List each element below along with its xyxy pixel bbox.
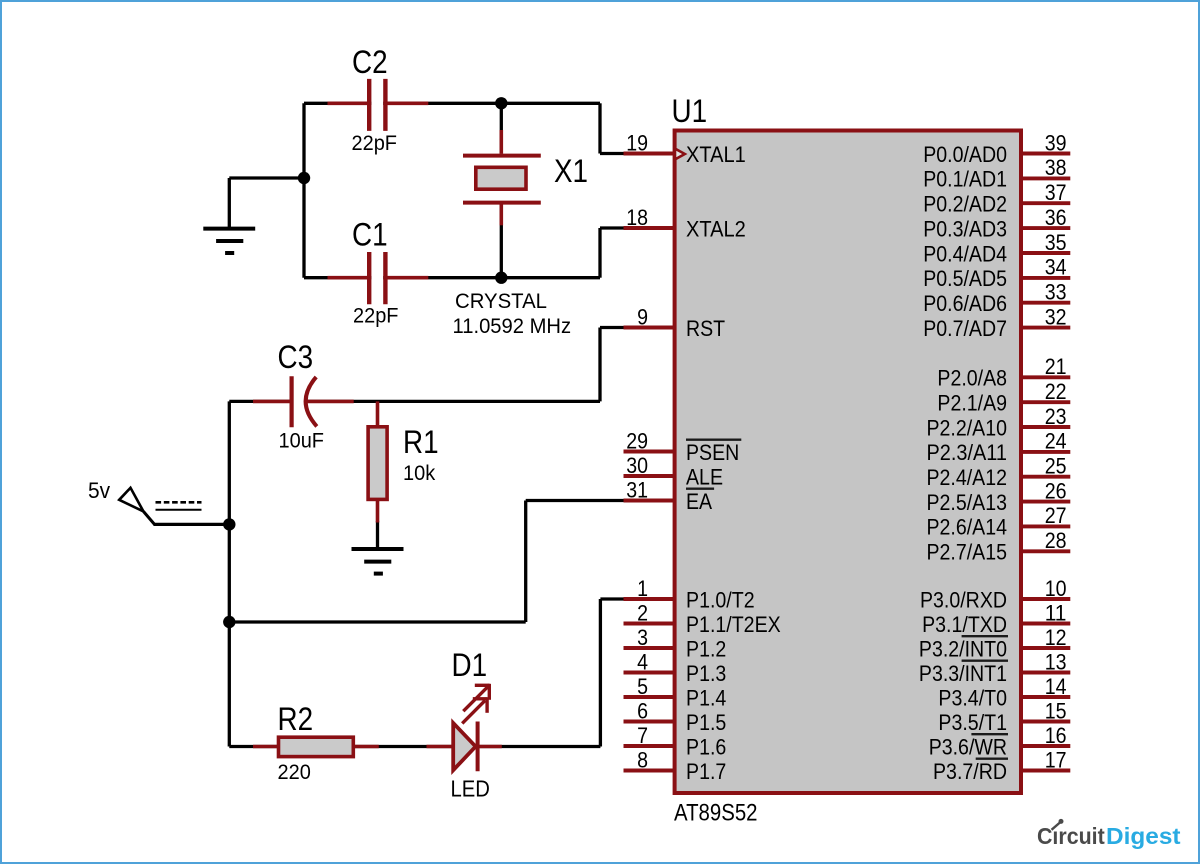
svg-text:P3.0/RXD: P3.0/RXD xyxy=(920,587,1007,612)
svg-text:Digest: Digest xyxy=(1106,823,1181,849)
svg-text:RST: RST xyxy=(686,316,725,341)
svg-text:P0.4/AD4: P0.4/AD4 xyxy=(923,241,1007,266)
svg-text:6: 6 xyxy=(637,698,648,723)
svg-text:P1.3: P1.3 xyxy=(686,661,726,686)
svg-text:P3.4/T0: P3.4/T0 xyxy=(938,685,1007,710)
svg-text:21: 21 xyxy=(1045,354,1067,379)
svg-text:32: 32 xyxy=(1045,304,1067,329)
svg-text:XTAL1: XTAL1 xyxy=(686,142,746,167)
svg-text:39: 39 xyxy=(1045,130,1067,155)
svg-text:P3.7/RD: P3.7/RD xyxy=(933,759,1007,784)
svg-text:28: 28 xyxy=(1045,528,1067,553)
svg-text:P1.2: P1.2 xyxy=(686,636,726,661)
svg-text:P2.1/A9: P2.1/A9 xyxy=(937,391,1007,416)
svg-text:P0.3/AD3: P0.3/AD3 xyxy=(923,216,1007,241)
svg-text:10k: 10k xyxy=(403,462,436,485)
svg-text:37: 37 xyxy=(1045,180,1067,205)
svg-text:P3.5/T1: P3.5/T1 xyxy=(938,710,1007,735)
svg-text:R2: R2 xyxy=(278,701,314,737)
svg-text:C2: C2 xyxy=(352,44,388,80)
svg-text:220: 220 xyxy=(278,761,311,784)
svg-text:U1: U1 xyxy=(672,93,708,129)
svg-text:P3.6/WR: P3.6/WR xyxy=(929,734,1007,759)
svg-text:31: 31 xyxy=(626,477,648,502)
svg-text:P2.0/A8: P2.0/A8 xyxy=(937,366,1007,391)
svg-text:34: 34 xyxy=(1045,255,1067,280)
svg-text:P0.2/AD2: P0.2/AD2 xyxy=(923,192,1007,217)
svg-text:C3: C3 xyxy=(278,339,314,375)
svg-text:C1: C1 xyxy=(352,216,388,252)
svg-text:22pF: 22pF xyxy=(353,305,399,328)
svg-text:P1.6: P1.6 xyxy=(686,734,726,759)
svg-text:30: 30 xyxy=(626,453,648,478)
svg-text:4: 4 xyxy=(637,649,648,674)
svg-text:P0.0/AD0: P0.0/AD0 xyxy=(923,142,1007,167)
svg-text:ALE: ALE xyxy=(686,464,723,489)
svg-text:5: 5 xyxy=(637,674,648,699)
svg-text:12: 12 xyxy=(1045,625,1067,650)
svg-text:16: 16 xyxy=(1045,723,1067,748)
svg-text:P3.3/INT1: P3.3/INT1 xyxy=(919,661,1007,686)
svg-text:3: 3 xyxy=(637,625,648,650)
svg-text:8: 8 xyxy=(637,747,648,772)
svg-text:23: 23 xyxy=(1045,404,1067,429)
svg-text:29: 29 xyxy=(626,428,648,453)
svg-text:17: 17 xyxy=(1045,747,1067,772)
svg-text:R1: R1 xyxy=(403,424,439,460)
svg-text:1: 1 xyxy=(637,576,648,601)
svg-text:14: 14 xyxy=(1045,674,1067,699)
svg-text:P2.4/A12: P2.4/A12 xyxy=(927,465,1008,490)
svg-text:5v: 5v xyxy=(88,478,110,503)
svg-text:P2.7/A15: P2.7/A15 xyxy=(927,540,1008,565)
svg-text:P1.1/T2EX: P1.1/T2EX xyxy=(686,612,781,637)
svg-text:CRYSTAL: CRYSTAL xyxy=(455,290,547,313)
svg-text:15: 15 xyxy=(1045,698,1067,723)
svg-text:EA: EA xyxy=(686,489,712,514)
svg-text:25: 25 xyxy=(1045,454,1067,479)
svg-text:22: 22 xyxy=(1045,379,1067,404)
svg-text:P2.6/A14: P2.6/A14 xyxy=(927,515,1008,540)
svg-text:9: 9 xyxy=(637,304,648,329)
svg-text:35: 35 xyxy=(1045,230,1067,255)
svg-text:22pF: 22pF xyxy=(352,132,398,155)
svg-text:P2.2/A10: P2.2/A10 xyxy=(927,415,1008,440)
svg-text:26: 26 xyxy=(1045,478,1067,503)
svg-text:X1: X1 xyxy=(554,153,588,189)
svg-text:P1.4: P1.4 xyxy=(686,685,726,710)
svg-text:19: 19 xyxy=(626,130,648,155)
svg-text:P0.5/AD5: P0.5/AD5 xyxy=(923,266,1007,291)
svg-text:7: 7 xyxy=(637,723,648,748)
svg-text:P1.7: P1.7 xyxy=(686,759,726,784)
svg-text:LED: LED xyxy=(451,775,490,801)
svg-text:D1: D1 xyxy=(452,647,488,683)
svg-text:Cırcuit: Cırcuit xyxy=(1037,823,1105,849)
svg-text:P0.7/AD7: P0.7/AD7 xyxy=(923,316,1007,341)
svg-text:P3.2/INT0: P3.2/INT0 xyxy=(919,636,1007,661)
svg-text:2: 2 xyxy=(637,600,648,625)
svg-text:PSEN: PSEN xyxy=(686,440,739,465)
svg-text:P1.0/T2: P1.0/T2 xyxy=(686,587,755,612)
svg-text:AT89S52: AT89S52 xyxy=(674,800,758,827)
svg-text:33: 33 xyxy=(1045,280,1067,305)
svg-text:24: 24 xyxy=(1045,429,1067,454)
svg-text:P0.1/AD1: P0.1/AD1 xyxy=(923,167,1007,192)
svg-text:18: 18 xyxy=(626,205,648,230)
svg-text:10: 10 xyxy=(1045,576,1067,601)
svg-text:P2.5/A13: P2.5/A13 xyxy=(927,490,1008,515)
svg-text:P0.6/AD6: P0.6/AD6 xyxy=(923,291,1007,316)
svg-text:11.0592 MHz: 11.0592 MHz xyxy=(453,315,572,338)
svg-text:38: 38 xyxy=(1045,155,1067,180)
svg-text:27: 27 xyxy=(1045,503,1067,528)
svg-text:P3.1/TXD: P3.1/TXD xyxy=(922,612,1007,637)
svg-text:11: 11 xyxy=(1045,600,1067,625)
svg-text:XTAL2: XTAL2 xyxy=(686,216,746,241)
svg-text:36: 36 xyxy=(1045,205,1067,230)
svg-text:10uF: 10uF xyxy=(279,430,325,453)
svg-text:P1.5: P1.5 xyxy=(686,710,726,735)
svg-text:P2.3/A11: P2.3/A11 xyxy=(927,440,1008,465)
svg-text:13: 13 xyxy=(1045,649,1067,674)
